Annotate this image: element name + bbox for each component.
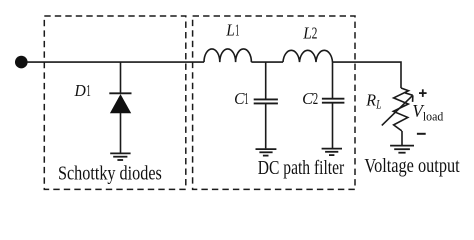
dashed box: DC path filter section <box>193 16 355 189</box>
svg-text:D: D <box>74 81 87 100</box>
svg-text:L: L <box>225 21 235 40</box>
plus sign (V load polarity) <box>419 89 427 97</box>
resistor RL (variable load) <box>393 88 408 145</box>
ground (below C2) <box>322 149 342 156</box>
wire: input to L1 <box>27 61 205 63</box>
svg-text:L: L <box>302 23 312 42</box>
label D1 <box>74 81 91 100</box>
svg-text:Schottky diodes: Schottky diodes <box>58 163 162 185</box>
capacitor C1 <box>254 62 278 148</box>
svg-text:2: 2 <box>312 23 318 42</box>
svg-text:load: load <box>423 109 444 124</box>
dashed box: Schottky diodes section <box>44 16 186 189</box>
capacitor C2 <box>322 62 345 148</box>
wire: L1 to L2 (through node of C1) <box>251 61 283 63</box>
label L2 <box>302 23 317 42</box>
input node (terminal dot) <box>15 56 28 69</box>
ground (below RL) <box>390 146 414 153</box>
label Vload <box>412 101 443 123</box>
inductor L2 <box>283 50 333 62</box>
arrow across RL (variable symbol) <box>382 93 413 126</box>
svg-text:1: 1 <box>86 81 91 100</box>
label C1 <box>234 89 249 108</box>
svg-text:Voltage output: Voltage output <box>364 155 460 177</box>
ground (below C1) <box>256 149 277 156</box>
svg-text:L: L <box>375 97 381 112</box>
minus sign (V load polarity) <box>417 133 426 135</box>
svg-text:2: 2 <box>313 89 318 108</box>
label C2 <box>302 89 318 108</box>
svg-text:1: 1 <box>235 21 239 40</box>
svg-text:1: 1 <box>244 89 248 108</box>
wire: L2/C2 node to output corner <box>333 62 402 88</box>
ground (below D1) <box>110 153 130 160</box>
svg-text:DC path filter: DC path filter <box>258 157 345 179</box>
diode D1 <box>109 62 131 153</box>
inductor L1 <box>204 49 251 62</box>
label RL <box>365 90 381 111</box>
label L1 <box>225 21 239 40</box>
svg-text:R: R <box>365 90 376 109</box>
